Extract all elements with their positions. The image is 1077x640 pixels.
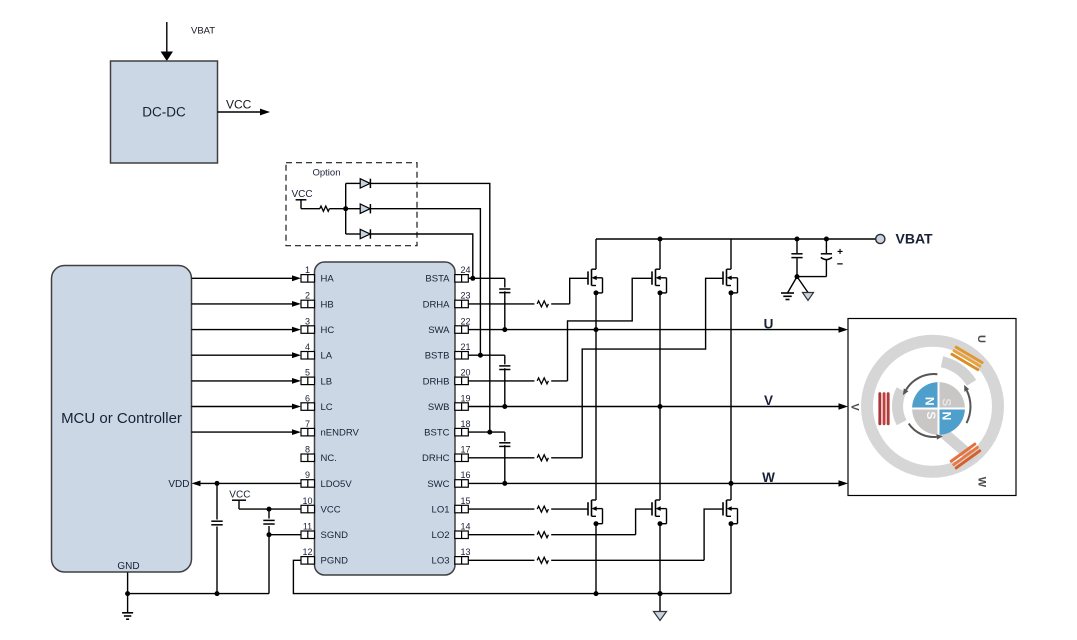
junction SWC bootstrap [502,481,507,486]
transistor Q5 (low B) [652,500,667,526]
label Option [313,168,341,179]
pin 24 BSTA [425,265,470,285]
pin 14 LO2 [432,522,471,542]
pin 17 DRHC [422,445,470,465]
svg-text:V: V [849,403,861,411]
svg-text:4: 4 [305,342,310,352]
capacitor C electrolytic (polarized) [797,239,832,277]
motor rotor quadrant SW (S pole) [912,409,938,435]
motor box [848,319,1016,496]
pin 2 HB [301,291,334,311]
svg-text:LB: LB [321,376,333,387]
capacitor C boot B [499,366,510,370]
wire anode to diode D3 [346,233,361,235]
wire source Q3 (high C) to phase [730,293,732,484]
svg-text:+: + [837,247,843,258]
diode D2 [360,204,370,213]
wire LO2 gate drive [468,509,652,535]
svg-text:VCC: VCC [226,98,252,112]
wire BSTC to bootstrap cap [468,431,505,433]
wire VBAT input to DC-DC [161,22,173,61]
pin 8 NC. [301,445,337,465]
rotor label S (NE) [940,398,954,406]
svg-text:N: N [922,397,936,406]
rotor rotation arrow (right) [964,385,970,423]
svg-text:BSTA: BSTA [425,274,450,285]
pin 16 SWC [427,470,470,490]
wire HC (MCU to pin 3) [192,327,302,333]
transistor Q4 (low A) [588,500,603,526]
wire LO1 gate drive [468,508,588,510]
svg-text:VBAT: VBAT [191,26,215,37]
svg-text:13: 13 [460,547,470,557]
wire bootstrap cap CB branch [504,355,506,406]
svg-text:U: U [975,335,987,343]
junction SGND [267,532,272,537]
svg-text:NC.: NC. [321,453,337,464]
svg-text:W: W [762,470,775,485]
junction D2 to BSTB [478,353,483,358]
svg-text:SWA: SWA [428,325,450,336]
resistor R gate A low [537,506,548,512]
svg-text:20: 20 [460,368,470,378]
rotor rotation arrow (top) [903,374,938,395]
wire source Q4 (low A) to ground rail [595,524,597,594]
junction GND MCU [125,591,130,596]
wire resistor to diode node [329,208,345,210]
pin 7 nENDRV [301,419,360,439]
label + polarity [837,247,843,258]
junction VDD cap to rail [215,591,220,596]
motor rotor quadrant NE (S pole) [939,382,965,408]
capacitor C boot A [499,289,510,293]
pin 3 HC [301,316,334,336]
wire diode anode branch [345,183,347,234]
wire to chassis ground [797,277,808,293]
svg-text:HB: HB [321,299,334,310]
wire drain Q1 (high A) to VBAT rail [595,239,597,269]
junction D3 to BSTA [470,276,475,281]
transistor Q3 (high C) [723,269,738,295]
wire VBAT rail [596,238,876,240]
ground earth (power) [781,293,794,300]
IC gate driver body [315,262,456,575]
diode D3 [360,229,370,238]
svg-text:nENDRV: nENDRV [321,428,360,439]
wire VDD bypass cap branch [216,483,218,593]
wire SWC / phase W [468,480,848,486]
resistor R gate B low [537,532,548,538]
motor pole shoe U (upper right) [941,356,976,385]
pin 20 DRHB [423,368,471,388]
svg-text:10: 10 [302,496,312,506]
svg-text:LC: LC [321,402,333,413]
junction rail center [658,591,663,596]
resistor R gate C high [537,455,548,461]
svg-text:S: S [924,411,938,419]
svg-text:−: − [837,259,843,271]
rotor rotation arrow (bottom) [909,424,943,440]
motor rotor quadrant NW (N pole) [912,382,938,408]
wire anode to diode D2 [346,208,361,210]
wire source Q5 (low B) to ground rail [659,524,661,594]
ground earth (signal) [122,613,133,619]
svg-text:LO1: LO1 [432,505,450,516]
svg-text:LO2: LO2 [432,530,450,541]
wire drain Q2 (high B) to VBAT rail [659,239,661,269]
transistor Q6 (low C) [723,500,738,526]
svg-text:12: 12 [302,547,312,557]
junction phase U node [594,327,599,332]
svg-text:VCC: VCC [292,189,313,200]
svg-text:BSTB: BSTB [425,351,450,362]
svg-text:18: 18 [460,419,470,429]
wire D2 to BSTB [370,209,480,356]
motor phase label W [976,477,988,488]
rotor label N (SE) [939,412,953,421]
svg-text:U: U [764,317,774,332]
block MCU or Controller [52,266,192,573]
motor winding U (orange stripes) [950,345,984,371]
junction Q5 source to rail [658,591,663,596]
svg-text:W: W [976,477,988,488]
junction VCC bypass [267,507,272,512]
svg-text:21: 21 [460,342,470,352]
svg-text:DRHC: DRHC [422,453,450,464]
svg-text:24: 24 [460,265,470,275]
svg-text:14: 14 [460,522,470,532]
motor phase label U [975,335,987,343]
wire drain Q5 (low B) to phase [659,407,661,501]
pin 9 LDO5V [301,470,352,490]
junction SWB bootstrap [502,404,507,409]
motor stator ring [867,341,998,472]
wire to earth ground [788,277,798,293]
wire LC (MCU to pin 6) [192,404,302,410]
transistor Q1 (high A) [588,269,603,295]
motor phase label V [849,403,861,411]
junction SWA bootstrap [502,327,507,332]
wire LO3 gate drive [468,509,723,560]
svg-text:23: 23 [460,291,470,301]
svg-text:DC-DC: DC-DC [142,105,186,120]
wire bootstrap cap CA branch [504,278,506,329]
wire source Q1 (high A) to phase [595,293,597,330]
svg-text:LDO5V: LDO5V [321,479,353,490]
terminal VBAT [876,234,885,243]
capacitor C VCC bypass [263,520,274,524]
wire D3 to BSTA [370,234,472,278]
motor pole shoe W (lower right) [939,428,978,464]
svg-text:9: 9 [305,470,310,480]
wire rail to power ground [659,594,661,612]
svg-text:S: S [940,398,954,406]
svg-text:5: 5 [305,368,310,378]
wire drain Q6 (low C) to phase [730,483,732,500]
net label U [764,317,774,332]
svg-text:Option: Option [313,168,341,179]
pin 21 BSTB [425,342,471,362]
wire LB (MCU to pin 5) [192,378,302,384]
pin 15 LO1 [432,496,471,516]
wire drain Q3 (high C) to VBAT rail [730,239,732,269]
svg-text:DRHA: DRHA [423,299,451,310]
motor rotor quadrant SE (N pole) [939,409,965,435]
svg-text:15: 15 [460,496,470,506]
ground arrow (power) [654,612,667,621]
svg-text:19: 19 [460,393,470,403]
pin 19 SWB [428,393,471,413]
wire DRHC gate drive [468,278,723,458]
wire VCC tap to resistor [301,208,320,210]
motor pole shoe V (left) [892,387,907,425]
pin 23 DRHA [423,291,471,311]
svg-text:3: 3 [305,316,310,326]
svg-text:SWB: SWB [428,402,450,413]
pin 12 PGND [301,547,348,567]
svg-text:LA: LA [321,351,333,362]
capacitor C boot C [499,443,510,447]
wire VCC bypass branch [268,509,270,593]
svg-text:HA: HA [321,274,335,285]
svg-text:11: 11 [303,522,312,532]
motor rotor cross divider [912,382,965,435]
pin 6 LC [301,393,333,413]
svg-text:N: N [939,412,953,421]
junction cap ground node [795,274,800,279]
pin 13 LO3 [432,547,471,567]
pin 18 BSTC [424,419,470,439]
wire source Q6 (low C) to ground rail [730,524,732,594]
wire PGND to power rail [293,560,730,593]
rotor label S (SW) [924,411,938,419]
wire anode to diode D1 [346,182,361,184]
svg-text:17: 17 [460,445,470,455]
net label VBAT (top) [191,26,215,37]
svg-text:GND: GND [117,561,139,572]
wire HB (MCU to pin 2) [192,301,302,307]
pin 4 LA [301,342,333,362]
svg-text:SWC: SWC [427,479,449,490]
pin 10 VCC [301,496,341,516]
wire D1 to BSTC [370,183,489,432]
pin 22 SWA [428,316,470,336]
wire LA (MCU to pin 4) [192,352,302,358]
ground arrow (chassis) [803,293,814,301]
svg-text:VBAT: VBAT [896,231,934,247]
pin 1 HA [301,265,334,285]
motor winding V (red stripes) [878,392,889,425]
svg-text:1: 1 [305,265,310,275]
junction VDD bypass [215,481,220,486]
resistor R gate A high [537,301,548,307]
net label VBAT (right) [896,231,934,247]
wire HA (MCU to pin 1) [192,275,302,281]
svg-text:2: 2 [305,291,310,301]
svg-text:SGND: SGND [321,530,349,541]
pin 5 LB [301,368,332,388]
net label VCC (DC-DC output) [226,98,252,112]
wire SWA / phase U [468,326,848,332]
net label W [762,470,775,485]
wire ground rail (signal) [128,593,269,595]
diode D1 [360,179,370,188]
junction Q4 source to rail [594,591,599,596]
wire LDO5V to VDD [192,481,302,487]
svg-text:6: 6 [305,393,310,403]
svg-text:PGND: PGND [321,556,349,567]
wire SWB / phase V [468,403,848,409]
resistor R gate C low [537,557,548,563]
power tap VCC (option) [292,189,313,209]
wire VCC to pin 10 [239,508,301,510]
wire SGND to pin 11 [269,534,301,536]
junction Q2 drain [658,237,663,242]
svg-text:8: 8 [305,445,310,455]
wire BSTA to bootstrap cap [468,277,505,279]
svg-text:VCC: VCC [321,505,341,516]
rotor label N (NW) [922,397,936,406]
svg-text:16: 16 [460,470,470,480]
wire DRHA gate drive [468,278,588,304]
net label V [764,393,773,408]
junction D1 to BSTC [487,430,492,435]
junction electrolytic cap [824,237,829,242]
wire MCU GND stem [127,573,129,613]
junction bulk cap [795,237,800,242]
option dashed box [286,163,417,246]
svg-text:V: V [764,393,773,408]
svg-text:VDD: VDD [168,479,189,490]
transistor Q2 (high B) [652,269,667,295]
wire nENDRV (MCU to pin 7) [192,429,302,435]
svg-text:MCU or Controller: MCU or Controller [61,410,182,427]
svg-text:HC: HC [321,325,335,336]
junction phase V node [658,404,663,409]
svg-text:VCC: VCC [229,490,250,501]
svg-text:DRHB: DRHB [423,376,450,387]
wire BSTB to bootstrap cap [468,354,505,356]
pin 11 SGND [301,522,348,542]
resistor R option [320,206,330,211]
svg-text:LO3: LO3 [432,556,450,567]
junction phase W node [729,481,734,486]
power tap VCC (pin10) [229,490,250,510]
capacitor C bulk [791,239,802,277]
junction diode anode node [343,206,348,211]
wire source Q2 (high B) to phase [659,293,661,407]
motor winding W (orange-red stripes) [949,442,981,470]
capacitor C VDD bypass [211,521,222,525]
svg-text:7: 7 [305,419,310,429]
svg-text:BSTC: BSTC [424,428,449,439]
wire bootstrap cap CC branch [504,432,506,483]
wire VCC output of DC-DC [218,109,271,116]
block DC-DC converter [111,61,218,163]
label - polarity [837,259,843,271]
wire drain Q4 (low A) to phase [595,330,597,500]
wire DRHB gate drive [468,278,652,381]
resistor R gate B high [537,378,548,384]
svg-text:22: 22 [460,316,470,326]
